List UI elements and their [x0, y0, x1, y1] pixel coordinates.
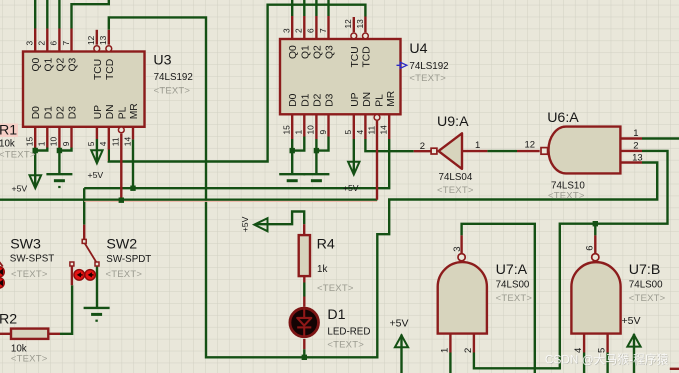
resistor R2 body	[11, 329, 48, 339]
wire U3.Q3 up and right to top edge	[72, 0, 109, 29]
wire overlap pink artifact on U3.DN	[106, 150, 108, 162]
svg-text:+5V: +5V	[12, 183, 28, 193]
svg-text:74LS192: 74LS192	[409, 61, 448, 72]
svg-text:Q0: Q0	[288, 45, 299, 59]
ground under U3 D2/D3	[46, 174, 72, 187]
svg-text:14: 14	[379, 125, 389, 135]
svg-text:<TEXT>: <TEXT>	[317, 283, 354, 294]
svg-text:+5V: +5V	[88, 170, 104, 180]
svg-text:3: 3	[25, 41, 35, 46]
pin stub U9 pin2 output at bubble	[414, 150, 431, 152]
svg-text:U4: U4	[409, 41, 427, 57]
junction U7:B pin6 on U6 pin2 net	[593, 221, 598, 226]
svg-text:Q0: Q0	[31, 57, 42, 71]
NAND2 U7:B 74LS00 body	[571, 262, 620, 333]
svg-text:12: 12	[86, 35, 96, 45]
junction U4.D0/D1	[290, 148, 295, 153]
svg-text:LED-RED: LED-RED	[327, 326, 370, 337]
bubble U4 TCD	[363, 33, 369, 39]
svg-text:SW-SPDT: SW-SPDT	[106, 254, 151, 265]
power +5V arrow pointing left near R4	[254, 218, 267, 231]
wire U3.D1 elbow to U3.D0	[35, 148, 47, 151]
wire U7:A pin3 to bottom edge	[462, 224, 535, 373]
svg-text:14: 14	[122, 137, 132, 147]
svg-text:1k: 1k	[317, 264, 327, 275]
bubble U3 TCD	[106, 46, 112, 52]
svg-text:5: 5	[86, 141, 96, 146]
junction U3.PL on PL net	[119, 198, 124, 203]
wire net U3.TCD long run to D1 cathode loop and U6 pin13	[109, 17, 657, 357]
svg-text:D1: D1	[43, 106, 54, 119]
svg-text:9: 9	[318, 130, 328, 135]
pin stub U4 pin13 TCD	[364, 17, 366, 33]
svg-text:13: 13	[355, 19, 365, 29]
power +5V arrow under U4.UP	[348, 162, 359, 175]
svg-text:Q1: Q1	[43, 57, 54, 71]
pin wire SW2 common red	[83, 225, 85, 240]
svg-text:<TEXT>: <TEXT>	[11, 353, 48, 364]
svg-text:2: 2	[420, 141, 425, 152]
ground under SW2 right contact	[84, 308, 110, 321]
pin stub U3 pin4 DN	[108, 127, 110, 150]
pin lead R4 top	[303, 224, 305, 235]
wire U3.D3 elbow to U3.D2	[59, 148, 71, 151]
svg-text:74LS192: 74LS192	[154, 72, 193, 83]
svg-text:+5V: +5V	[390, 317, 409, 329]
svg-text:10k: 10k	[0, 139, 15, 150]
junction D1 cathode on loop	[302, 355, 307, 360]
svg-text:DN: DN	[362, 92, 373, 107]
svg-text:<TEXT>: <TEXT>	[548, 190, 585, 201]
svg-text:D1: D1	[300, 93, 311, 106]
svg-text:R2: R2	[0, 312, 17, 328]
wire U7:B pin4 to bottom edge	[583, 353, 585, 373]
wire overlap pink artifact on PL net	[84, 200, 377, 202]
svg-text:1: 1	[37, 141, 47, 146]
bubble U3 PL	[118, 127, 124, 133]
svg-text:4: 4	[355, 130, 365, 135]
wire U4.D1 elbow to U4.D0	[292, 137, 304, 151]
wire U7:A pin1 to bottom edge	[449, 353, 451, 373]
svg-text:15: 15	[282, 125, 292, 135]
svg-text:13: 13	[632, 152, 643, 163]
pin stub U4 pin5 UP	[353, 114, 355, 139]
pin stub U7:B pin4	[583, 334, 585, 353]
ground under U4 D0/D1	[279, 174, 305, 181]
svg-text:<TEXT>: <TEXT>	[0, 150, 36, 161]
wire net U6 pin2 / U7:B out / U7:A pin2	[474, 151, 668, 368]
wire MR net SW2 to U3.MR and U4.MR	[84, 139, 389, 188]
junction U4.D2/D3	[314, 148, 319, 153]
power +5V arrow under U3.UP	[91, 150, 102, 163]
svg-text:<TEXT>: <TEXT>	[409, 73, 446, 84]
wire U4.D3 elbow to U4.D2	[316, 137, 328, 151]
pin stub U7:A pin3 output	[460, 235, 462, 253]
switch SW2 lever	[85, 243, 96, 262]
switch SW2 right contact square	[95, 262, 99, 266]
svg-text:CSDN @大马猴-程序猿: CSDN @大马猴-程序猿	[545, 353, 669, 367]
pin stub U7:A pin2	[473, 334, 475, 353]
NAND2 U7:A 74LS00 body	[438, 262, 487, 334]
svg-text:<TEXT>: <TEXT>	[629, 293, 666, 304]
svg-text:UP: UP	[350, 92, 361, 106]
pin stub U6 pin13	[620, 161, 642, 163]
pin stub U3 pin7 Q3	[70, 29, 72, 52]
wire U7:B pin5 to bottom edge	[606, 353, 608, 373]
svg-text:D0: D0	[31, 106, 42, 119]
pin lead R2 right	[48, 333, 60, 335]
wire U4.Q0 to top edge	[291, 0, 293, 16]
wire U6 output to U9 input	[487, 150, 517, 152]
pin stub U9 pin1 input	[462, 150, 487, 152]
svg-text:6: 6	[306, 28, 316, 33]
pin stub U4 pin12 TCU	[353, 17, 355, 32]
wire U3.D2 down to ground	[58, 148, 60, 175]
pin stub U6 pin2	[620, 150, 642, 152]
svg-text:13: 13	[98, 35, 108, 45]
svg-text:DN: DN	[105, 104, 116, 119]
svg-text:D2: D2	[55, 106, 66, 119]
switch SW2 left contact square	[70, 262, 74, 266]
wire U4.Q1 to top edge	[303, 0, 305, 16]
switch SW2 toggle button left	[74, 270, 85, 281]
svg-text:PL: PL	[374, 94, 385, 107]
wire U4.Q2 to top edge	[315, 0, 317, 16]
wire U3.D0 down to +5V arrow	[34, 148, 36, 187]
wire SW2 common up to MR net	[83, 188, 85, 225]
wire U3.MR down to MR net	[132, 139, 134, 188]
pin stub U4 pin9 D3	[327, 114, 329, 136]
watermark CSDN	[545, 353, 669, 368]
svg-text:TCU: TCU	[350, 46, 361, 67]
wire U4.D0 down to ground	[291, 139, 293, 174]
wire PL net R1 lead across to U4.PL	[0, 198, 377, 200]
pin stub U6 pin1	[620, 137, 642, 139]
svg-text:11: 11	[367, 125, 377, 134]
svg-text:Q3: Q3	[68, 57, 79, 71]
wire U4.D2 down to ground	[315, 139, 317, 174]
svg-text:+5V: +5V	[622, 315, 641, 327]
svg-text:74LS04: 74LS04	[439, 172, 473, 183]
svg-text:74LS00: 74LS00	[629, 279, 663, 290]
counter U4 74LS192 body	[280, 39, 401, 114]
svg-text:7: 7	[61, 41, 71, 46]
pin stub U3 pin6 Q2	[58, 29, 60, 52]
pin wire U4 pin11 PL red down to PL net	[376, 121, 378, 200]
svg-text:5: 5	[343, 130, 353, 135]
pin wire U3 pin11 PL red down to PL net	[120, 134, 122, 201]
svg-text:1: 1	[439, 348, 450, 353]
wire +5V arrow to R4 top	[256, 212, 305, 225]
pin stub U3 pin5 UP	[96, 127, 98, 139]
svg-text:D3: D3	[68, 106, 79, 119]
wire U3.Q2 to top edge	[58, 0, 60, 29]
wire U4.UP down to +5V arrow	[353, 139, 355, 172]
pin stub U7:A pin1	[449, 334, 451, 353]
svg-text:U7:B: U7:B	[629, 262, 661, 278]
resistor R4 body	[299, 235, 310, 276]
pin wire SW2 left contact red	[71, 266, 73, 285]
svg-text:<TEXT>: <TEXT>	[437, 185, 474, 196]
bubble U4 TCU	[351, 33, 357, 39]
pin stub U3 pin1 D1	[46, 127, 48, 148]
bubble U7:A output	[458, 254, 465, 261]
svg-text:1: 1	[633, 128, 638, 139]
svg-text:<TEXT>: <TEXT>	[11, 269, 48, 280]
svg-text:D3: D3	[325, 93, 336, 106]
wire U3.Q0 to top edge	[34, 0, 36, 29]
switch SW2 pivot square	[82, 239, 86, 243]
junction U3.MR on MR net	[130, 186, 135, 191]
pin stub U4 pin6 Q2	[315, 16, 317, 39]
svg-text:D0: D0	[288, 93, 299, 106]
svg-text:D2: D2	[312, 93, 323, 106]
wire U3.Q1 to top edge	[46, 0, 48, 29]
svg-text:U9:A: U9:A	[437, 114, 469, 130]
pin stub U3 pin10 D2	[58, 127, 60, 148]
bubble U6:A output square	[541, 148, 548, 155]
svg-text:2: 2	[633, 140, 638, 151]
pin stub U4 pin1 D1	[303, 114, 305, 136]
pin lead R4 bottom	[303, 276, 305, 282]
bubble U4 PL	[374, 115, 380, 121]
wire U6 pin1 to right edge	[642, 137, 679, 139]
pin lead D1 anode	[303, 297, 305, 307]
LED D1 diode symbol	[297, 309, 311, 337]
pin stub U4 pin14 MR	[388, 114, 390, 139]
wire red stub at right edge bottom	[670, 368, 679, 370]
power +5V arrow up mid bottom	[395, 335, 408, 347]
ground under U4 D2/D3	[303, 174, 329, 181]
svg-text:10: 10	[306, 125, 316, 135]
svg-text:<TEXT>: <TEXT>	[496, 293, 533, 304]
svg-text:<TEXT>: <TEXT>	[106, 269, 143, 280]
junction U3.D2/D3	[57, 148, 62, 153]
pin stub U7:B pin6 output	[594, 235, 596, 253]
wire +5V stem bottom right	[633, 334, 635, 373]
svg-text:2: 2	[294, 28, 304, 33]
wire U3.UP down to +5V arrow	[96, 139, 98, 161]
switch SW3 toggle button lower (cropped)	[0, 278, 4, 289]
svg-text:15: 15	[25, 137, 35, 147]
svg-text:R1: R1	[0, 123, 17, 139]
bubble U7:B output	[592, 254, 599, 261]
switch SW3 lever (cropped at edge)	[0, 258, 3, 267]
svg-text:SW3: SW3	[10, 236, 41, 252]
svg-text:+5V: +5V	[343, 183, 359, 193]
pin stub U3 pin2 Q1	[46, 29, 48, 52]
wire D1 cathode to loop	[303, 349, 305, 357]
wire +5V stem mid bottom	[400, 335, 402, 373]
pin stub U3 pin15 D0	[34, 127, 36, 148]
wire U4.Q3 to top edge	[327, 0, 329, 16]
svg-text:12: 12	[343, 19, 353, 29]
pin stub U4 pin10 D2	[315, 114, 317, 139]
svg-text:Q2: Q2	[55, 57, 66, 71]
svg-text:7: 7	[318, 28, 328, 33]
svg-text:9: 9	[61, 141, 71, 146]
svg-text:Q1: Q1	[300, 45, 311, 59]
svg-text:R4: R4	[317, 236, 335, 252]
bubble U3 TCU	[94, 46, 100, 52]
svg-text:TCD: TCD	[361, 46, 372, 67]
svg-text:<TEXT>: <TEXT>	[327, 340, 364, 351]
wire net U3.DN cascade to U4.TCD	[109, 5, 366, 162]
svg-text:UP: UP	[93, 105, 104, 119]
svg-text:3: 3	[282, 28, 292, 33]
pin stub U4 pin7 Q3	[327, 16, 329, 39]
inverter U9:A 74LS04 triangle	[439, 133, 463, 169]
pin stub U7:B pin5	[606, 334, 608, 353]
pin stub U3 pin14 MR	[132, 127, 134, 140]
svg-text:1: 1	[294, 130, 304, 135]
label R1 highlight	[0, 124, 18, 138]
switch SW2 toggle button right	[85, 270, 96, 281]
svg-text:6: 6	[49, 41, 59, 46]
svg-text:D1: D1	[327, 307, 345, 323]
pin lead D1 cathode	[303, 339, 305, 349]
switch SW3 toggle button upper (cropped)	[0, 267, 4, 278]
svg-text:TCU: TCU	[93, 59, 104, 80]
svg-text:10: 10	[49, 137, 59, 147]
pin lead R2 left to edge	[0, 333, 11, 335]
svg-text:1: 1	[475, 140, 480, 151]
svg-text:U3: U3	[153, 53, 171, 69]
wire R4 to D1	[303, 283, 305, 297]
wire U9 output to U4.DN	[365, 139, 413, 151]
svg-text:MR: MR	[129, 103, 140, 119]
svg-text:SW2: SW2	[106, 236, 137, 252]
pin stub U3 pin3 Q0	[34, 29, 36, 52]
svg-text:2: 2	[37, 41, 47, 46]
pin stub U4 pin15 D0	[291, 114, 293, 139]
svg-text:MR: MR	[386, 91, 397, 107]
power +5V arrow up bottom right	[627, 335, 640, 347]
wire SW2 right contact down to ground	[96, 266, 98, 308]
svg-text:U6:A: U6:A	[547, 110, 579, 126]
pin stub U3 pin9 D3	[70, 127, 72, 148]
power +5V arrow under U3.D0	[30, 175, 42, 188]
svg-text:3: 3	[452, 247, 463, 252]
pin stub U4 pin4 DN	[364, 114, 366, 139]
pin stub U4 pin2 Q1	[303, 16, 305, 39]
pin stub U3 pin13 TCD	[108, 30, 110, 45]
svg-text:Q2: Q2	[312, 45, 323, 59]
svg-text:PL: PL	[117, 106, 128, 119]
junction U3.D0/D1	[33, 148, 38, 153]
svg-text:2: 2	[463, 348, 474, 353]
svg-text:U7:A: U7:A	[496, 262, 528, 278]
pin stub U6 pin12 output at bubble	[517, 150, 540, 152]
svg-text:12: 12	[525, 140, 536, 151]
NAND3 U6:A 74LS10 body	[549, 127, 621, 174]
svg-text:11: 11	[111, 137, 121, 146]
svg-text:TCD: TCD	[105, 59, 116, 80]
LED D1 body	[290, 308, 319, 337]
svg-text:SW-SPST: SW-SPST	[10, 254, 54, 265]
svg-text:Q3: Q3	[325, 45, 336, 59]
svg-text:6: 6	[584, 246, 595, 251]
wire U7:B pin6 up to net	[594, 224, 596, 236]
svg-text:4: 4	[98, 141, 108, 146]
pin stub U3 pin12 TCU	[96, 30, 98, 45]
counter U3 74LS192 body	[23, 52, 145, 127]
bubble U9:A output square	[431, 148, 437, 154]
svg-text:+5V: +5V	[240, 216, 250, 232]
marker blue arrow at U4 part	[397, 62, 407, 68]
wire R2 right lead up to SW2 left contact	[60, 285, 72, 334]
pin stub U4 pin3 Q0	[291, 16, 293, 39]
svg-text:<TEXT>: <TEXT>	[154, 86, 191, 97]
svg-text:74LS00: 74LS00	[496, 279, 530, 290]
